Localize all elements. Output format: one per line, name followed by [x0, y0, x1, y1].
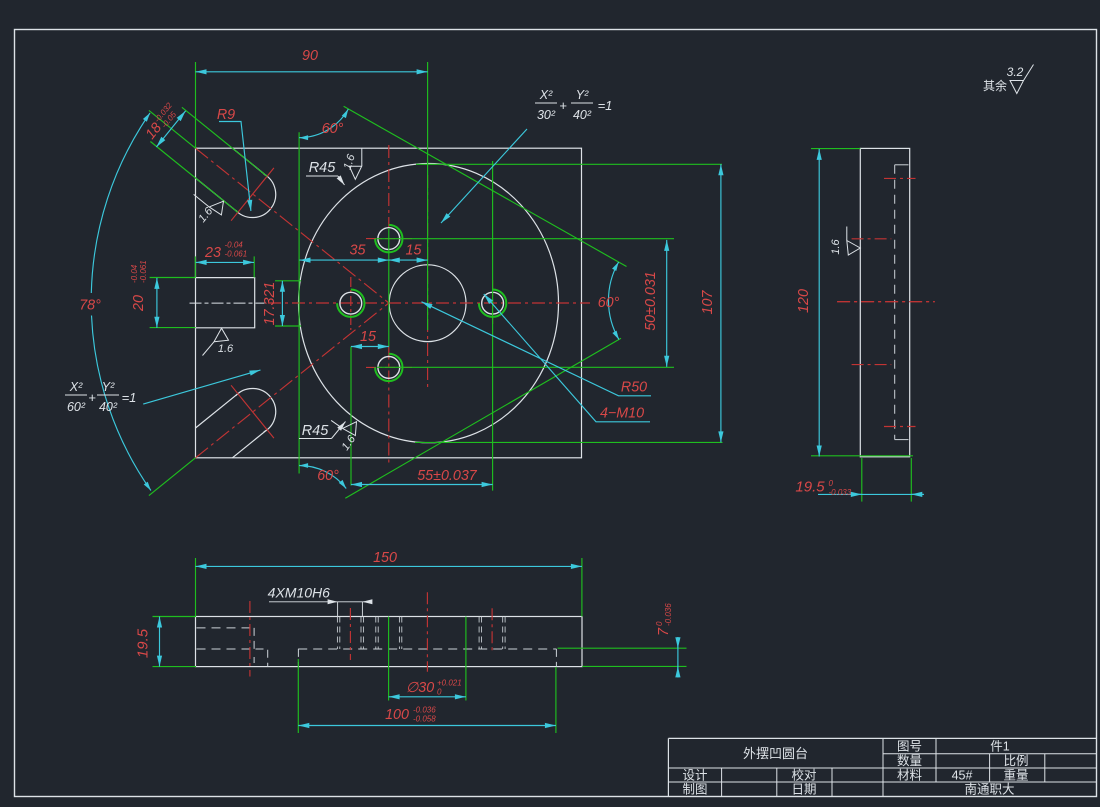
M10 hole 4 bore: [482, 292, 504, 314]
4-M10 leader: [484, 294, 650, 422]
side view centerline y238: [852, 238, 892, 240]
bottom slot cross centerline: [231, 385, 274, 438]
dim 17.321 line: [281, 281, 283, 326]
side view outline: [860, 148, 909, 456]
60deg tangent line lower: [345, 338, 621, 498]
R50 leader: [422, 302, 652, 396]
ext line horizontal y238 (50 dim top): [376, 238, 674, 240]
svg-text:15: 15: [360, 329, 376, 345]
dim 18 line: [156, 111, 185, 147]
bottom view centerline center: [426, 592, 428, 672]
svg-text:校对: 校对: [791, 768, 816, 783]
dim 30 line: [389, 696, 466, 698]
svg-text:-0.04: -0.04: [225, 241, 244, 250]
svg-text:外摆凹圆台: 外摆凹圆台: [743, 746, 808, 761]
vertical centerline hole pattern upper: [388, 145, 390, 228]
svg-text:R50: R50: [621, 380, 647, 396]
horizontal centerline side-view: [837, 301, 935, 303]
dim 7 text: [655, 603, 673, 636]
left hole vertical centerline: [350, 277, 352, 330]
svg-text:=1: =1: [598, 98, 613, 113]
side view hidden bottom: [895, 439, 909, 441]
bottom view centerline slot: [249, 601, 251, 677]
svg-text:35: 35: [350, 243, 366, 259]
ext line horizontal y326 (17.321 bottom): [275, 325, 301, 327]
svg-text:南通职大: 南通职大: [964, 782, 1014, 797]
svg-text:数量: 数量: [897, 753, 922, 768]
surface finish 1.6 ellipse lower-left: [322, 409, 366, 453]
dim 19.5 line: [818, 493, 918, 495]
title block grid: [668, 737, 1096, 739]
ext line vertical x388 (pattern center): [388, 228, 390, 347]
center hole Ø30: [389, 265, 466, 342]
ext line horizontal y367 (50 dim bottom): [377, 366, 674, 368]
surface finish 1.6 top edge: [349, 148, 362, 179]
R9 leader: [219, 122, 251, 212]
dim 90 line: [196, 71, 428, 73]
svg-text:4−M10: 4−M10: [600, 406, 644, 422]
bottom slot axis centerline: [196, 303, 389, 458]
svg-text:45#: 45#: [952, 769, 973, 783]
top slot axis centerline: [196, 148, 389, 303]
svg-text:120: 120: [796, 289, 812, 313]
dim 60 right arc: [608, 262, 619, 340]
svg-text:X²: X²: [539, 88, 553, 102]
svg-text:+: +: [559, 98, 567, 113]
svg-text:50±0.031: 50±0.031: [643, 271, 659, 331]
svg-text:0: 0: [437, 688, 442, 697]
vertical centerline center hole: [427, 175, 429, 387]
M10 hole 2 thread arc: [375, 225, 402, 252]
bottom view hidden M10 hole 2: [377, 617, 379, 650]
bottom view centerline hole1: [349, 608, 351, 660]
ext line vertical x492 (right hole): [492, 161, 494, 491]
svg-text:19.5: 19.5: [135, 628, 152, 658]
dim 7 ext top: [558, 647, 687, 649]
ext line vertical x351 (left hole): [350, 347, 352, 486]
svg-text:100: 100: [385, 707, 409, 723]
svg-text:15: 15: [406, 243, 422, 259]
svg-text:Y²: Y²: [102, 380, 115, 394]
svg-text:60°: 60°: [317, 468, 339, 484]
svg-text:R9: R9: [217, 107, 235, 123]
4XM10H6 dim line: [269, 601, 338, 603]
M10 hole 1 bore: [340, 292, 362, 314]
dim 19.5 arrows: [849, 493, 862, 495]
side view centerline y178: [884, 177, 916, 179]
ext line vertical x299 (ellipse left): [298, 132, 300, 473]
dim 19.5b ext bottom: [153, 666, 197, 668]
ext line vertical x427 (90 dim): [427, 62, 429, 330]
bottom view hidden slot top: [197, 627, 255, 629]
vertical centerline hole pattern lower: [388, 347, 390, 464]
bottom view hidden slot step2: [256, 649, 268, 666]
dim 50 line: [666, 240, 668, 367]
60deg tangent line upper: [344, 106, 627, 266]
M10 hole 4 thread arc: [479, 290, 506, 317]
svg-text:∅30: ∅30: [406, 680, 434, 696]
front view plate outline: [196, 148, 582, 458]
M10 hole 1 thread arc: [337, 290, 364, 317]
svg-text:19.5: 19.5: [795, 479, 825, 496]
svg-text:40²: 40²: [573, 108, 592, 122]
ext line horizontal y442 (107 dim bottom): [415, 441, 723, 443]
dim 19.5 ext right: [910, 458, 912, 502]
bottom view hidden slot step1: [253, 628, 255, 650]
side view centerline y364: [852, 364, 892, 366]
svg-text:40²: 40²: [99, 400, 118, 414]
bottom view centerline hole4: [491, 608, 493, 653]
svg-text:0: 0: [655, 621, 664, 626]
dim 100 line: [298, 725, 556, 727]
dim 20 text: [130, 260, 148, 312]
svg-text:60°: 60°: [598, 295, 620, 311]
bottom view hidden boss left step: [297, 649, 299, 666]
ellipse equation top: [535, 88, 612, 122]
dim 150 ext left: [195, 558, 197, 617]
svg-text:30²: 30²: [537, 108, 556, 122]
slot axis extension green bottom: [149, 458, 196, 496]
bottom view hidden M10 hole 3: [481, 617, 483, 650]
svg-text:材料: 材料: [897, 769, 923, 783]
svg-text:78°: 78°: [79, 298, 101, 314]
dim 120 ext bottom: [811, 455, 913, 457]
bottom view hidden boss right step: [555, 649, 557, 667]
svg-text:60°: 60°: [322, 121, 344, 137]
svg-text:X²: X²: [69, 380, 83, 394]
bottom-left slot R9 cap arc: [236, 388, 276, 432]
ext line vertical x195 (90 dim): [195, 62, 197, 148]
dim 107 line: [720, 164, 722, 442]
svg-text:-0.036: -0.036: [413, 706, 436, 715]
slot axis extension green top: [149, 110, 196, 148]
svg-text:R45: R45: [302, 423, 330, 439]
svg-text:55±0.037: 55±0.037: [417, 468, 478, 484]
bottom-left slot R9 upper wall: [196, 394, 238, 428]
bottom view hidden line left: [197, 648, 251, 650]
svg-text:+: +: [88, 390, 96, 405]
dim 19.5 ext left: [861, 458, 863, 502]
dim 100 ext left: [297, 659, 299, 733]
bottom view hidden M10 hole 1: [339, 617, 341, 650]
dim 18 text: [142, 101, 181, 144]
4XM10H6 ext lines: [337, 602, 339, 617]
svg-text:107: 107: [700, 290, 716, 315]
dim 35 line: [300, 259, 389, 261]
slot wall extension green top-upper: [182, 107, 267, 176]
svg-text:0: 0: [829, 479, 834, 488]
svg-text:制图: 制图: [682, 783, 707, 797]
dim 30 ext left: [388, 617, 390, 701]
dim 19.5b ext top: [153, 616, 197, 618]
bottom-left slot R9 lower wall: [232, 430, 267, 458]
svg-text:90: 90: [302, 48, 318, 64]
svg-text:重量: 重量: [1003, 768, 1028, 783]
dim 7 arrows: [677, 640, 679, 648]
svg-text:=1: =1: [122, 390, 137, 405]
svg-text:1.6: 1.6: [830, 238, 842, 254]
side view centerline y301: [837, 301, 935, 303]
dim 15 line: [389, 259, 428, 261]
svg-text:150: 150: [373, 550, 397, 566]
ext line horizontal y327 (20 dim bottom): [150, 327, 196, 329]
ext line horizontal y164 (107 dim top): [416, 163, 722, 165]
dim 19.5b line: [159, 617, 161, 667]
svg-text:3.2: 3.2: [1007, 65, 1024, 79]
side view centerline y426: [884, 426, 916, 428]
surface finish 1.6 slot wall: [183, 184, 228, 229]
top-left slot R9 lower wall: [196, 178, 238, 212]
dim 78 arc: [91, 113, 150, 293]
svg-text:-0.061: -0.061: [139, 260, 148, 283]
dim 60 top arc: [299, 109, 348, 138]
dim 30 ext right: [465, 617, 467, 701]
svg-text:-0.058: -0.058: [413, 715, 436, 724]
dim 60 bottom arc: [299, 465, 346, 488]
equation1 leader: [441, 129, 527, 223]
dim 150 ext right: [581, 558, 583, 617]
svg-text:+0.021: +0.021: [437, 679, 462, 688]
top slot cross centerline: [231, 168, 274, 221]
left notch centerline: [190, 302, 265, 304]
dim 120 ext top: [811, 148, 860, 150]
svg-text:设计: 设计: [682, 768, 707, 783]
svg-text:60²: 60²: [67, 400, 86, 414]
bottom view hidden boss line: [298, 648, 556, 650]
svg-text:-0.04: -0.04: [130, 264, 139, 283]
ext line vertical x254 (23 dim): [253, 256, 255, 277]
ellipse equation bottom-left: [65, 380, 136, 414]
elliptical boss outline: [299, 164, 559, 443]
ext line horizontal y280 (17.321 top): [275, 280, 301, 282]
svg-text:23: 23: [204, 245, 221, 261]
dim 20 line: [156, 278, 158, 328]
horizontal centerline: [268, 302, 590, 304]
svg-text:4XM10H6: 4XM10H6: [268, 585, 330, 601]
top hole horizontal centerline: [366, 238, 412, 240]
svg-text:比例: 比例: [1003, 754, 1028, 768]
surface finish 1.6 side view edge: [830, 227, 861, 256]
M10 hole 3 thread arc: [375, 354, 402, 381]
bottom view outline: [196, 617, 583, 667]
svg-text:-0.061: -0.061: [225, 250, 248, 259]
dim 120 line: [818, 149, 820, 457]
dim 55 line: [351, 484, 493, 486]
equation2 leader: [143, 370, 260, 404]
dim 23 line: [196, 261, 255, 263]
ext line horizontal y277 (20 dim top): [150, 277, 196, 279]
svg-text:件1: 件1: [990, 740, 1010, 754]
left notch 23x20 outline: [196, 278, 255, 328]
svg-text:日期: 日期: [791, 783, 816, 797]
svg-text:-0.036: -0.036: [664, 603, 673, 626]
top-left slot R9 cap arc: [236, 174, 276, 218]
ext line vertical x195 (23 dim): [194, 256, 196, 277]
svg-text:20: 20: [131, 295, 147, 312]
dim 7 ext bottom: [582, 665, 686, 667]
side view hidden top: [895, 164, 909, 166]
dim 150 line: [196, 565, 582, 567]
dim 7 line: [677, 637, 679, 678]
side view hidden vertical: [894, 165, 896, 440]
svg-text:1.6: 1.6: [218, 343, 234, 355]
surface finish 1.6 notch bottom: [203, 328, 229, 355]
dim 100 ext right: [555, 667, 557, 733]
svg-text:Y²: Y²: [576, 88, 589, 102]
top-left slot R9 upper wall: [232, 148, 267, 176]
right hole vertical centerline: [492, 280, 494, 324]
dim 15b line: [351, 346, 389, 348]
M10 hole 3 bore: [378, 357, 400, 379]
slot wall extension green top-lower: [150, 142, 238, 213]
svg-text:-0.033: -0.033: [829, 488, 852, 497]
M10 hole 2 bore: [378, 228, 400, 250]
svg-text:R45: R45: [309, 160, 337, 176]
svg-text:17.321: 17.321: [262, 282, 278, 326]
svg-text:7: 7: [656, 627, 672, 636]
bottom hole horizontal centerline: [366, 366, 412, 368]
svg-text:图号: 图号: [897, 740, 922, 754]
svg-text:其余: 其余: [983, 78, 1007, 93]
